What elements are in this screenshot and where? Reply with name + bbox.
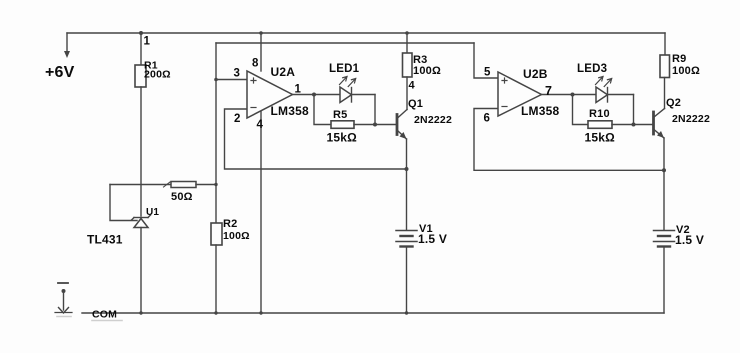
wire reference net vertical xyxy=(215,43,217,223)
svg-text:U2B: U2B xyxy=(523,67,548,81)
svg-text:LM358: LM358 xyxy=(521,104,559,118)
node emitter feedback junction xyxy=(405,167,409,171)
svg-text:4: 4 xyxy=(409,80,416,92)
node base Q1 xyxy=(373,123,377,127)
ground symbol xyxy=(55,283,72,313)
resistor 50Ω xyxy=(110,182,218,204)
node output U2B xyxy=(571,93,575,97)
op-amp U2A xyxy=(247,65,309,118)
node pin3 junction xyxy=(214,78,218,82)
resistor R3 xyxy=(403,31,441,77)
svg-text:Q2: Q2 xyxy=(666,97,681,109)
LED LED3 xyxy=(573,63,634,103)
resistor R9 xyxy=(660,33,700,78)
svg-text:2: 2 xyxy=(234,113,241,125)
battery V1 xyxy=(396,223,447,313)
svg-text:U1: U1 xyxy=(146,207,159,218)
svg-text:15kΩ: 15kΩ xyxy=(585,131,616,145)
svg-text:1.5 V: 1.5 V xyxy=(418,232,447,246)
svg-text:1.5 V: 1.5 V xyxy=(675,233,704,247)
svg-text:8: 8 xyxy=(252,58,259,70)
transistor Q1 xyxy=(397,77,452,139)
svg-text:LED3: LED3 xyxy=(577,63,607,75)
svg-text:15kΩ: 15kΩ xyxy=(327,131,358,145)
resistor R2 xyxy=(211,218,250,313)
node base Q2 xyxy=(632,123,636,127)
svg-text:200Ω: 200Ω xyxy=(144,69,171,81)
wire pin 6 feedback xyxy=(474,109,664,171)
battery V2 xyxy=(654,224,705,313)
wire pin 4 ground xyxy=(260,111,262,313)
resistor R10 xyxy=(573,95,634,145)
node 1 xyxy=(139,31,151,48)
wire bottom rail xyxy=(82,312,664,314)
svg-text:R10: R10 xyxy=(589,108,610,120)
wire pin 2 feedback xyxy=(225,109,407,169)
wire top supply rail xyxy=(67,32,665,34)
svg-text:COM: COM xyxy=(92,309,117,321)
svg-text:7: 7 xyxy=(545,84,552,98)
wire LED3 to R10 right leg xyxy=(633,95,635,125)
wire base Q1 xyxy=(375,124,397,126)
node output U2A xyxy=(312,93,316,97)
svg-text:R5: R5 xyxy=(333,109,347,121)
svg-text:R9: R9 xyxy=(672,53,686,65)
svg-text:5: 5 xyxy=(484,67,491,79)
svg-text:50Ω: 50Ω xyxy=(171,191,193,203)
node rail junctions xyxy=(139,311,142,314)
node emitter feedback junction Q2 xyxy=(662,168,666,172)
wire TL431 ref loop xyxy=(110,185,137,221)
wire output pin 7 xyxy=(542,94,573,96)
svg-text:100Ω: 100Ω xyxy=(672,65,700,77)
wire pin 5 xyxy=(474,43,498,78)
wire LED1 to R5 right leg xyxy=(374,95,376,125)
wire emitter Q2 to V2 xyxy=(663,138,665,230)
svg-text:6: 6 xyxy=(484,113,491,125)
wire base Q2 xyxy=(634,124,654,126)
wire reference net top xyxy=(216,42,474,44)
svg-text:U2A: U2A xyxy=(271,65,296,79)
LED LED1 xyxy=(314,63,375,103)
wire pin 3 xyxy=(216,79,247,81)
svg-text:3: 3 xyxy=(234,68,241,80)
svg-text:2N2222: 2N2222 xyxy=(414,114,452,126)
svg-text:LM358: LM358 xyxy=(271,104,309,118)
resistor R5 xyxy=(314,95,375,145)
svg-text:1: 1 xyxy=(144,36,151,48)
svg-text:TL431: TL431 xyxy=(87,233,123,247)
op-amp U2B xyxy=(498,67,559,118)
svg-text:+6V: +6V xyxy=(45,64,75,81)
wire output pin 1 xyxy=(293,94,315,96)
resistor R1 xyxy=(135,33,171,216)
svg-text:4: 4 xyxy=(257,119,264,131)
svg-text:Q1: Q1 xyxy=(408,98,423,110)
svg-text:LED1: LED1 xyxy=(329,63,360,75)
svg-text:1: 1 xyxy=(295,84,302,96)
shunt regulator U1 TL431 xyxy=(87,207,159,313)
svg-text:2N2222: 2N2222 xyxy=(672,113,710,125)
wire emitter Q1 to V1 xyxy=(406,139,408,230)
wire pin 8 supply xyxy=(260,33,262,71)
power +6V arrow xyxy=(45,33,75,81)
transistor Q2 xyxy=(654,78,710,139)
svg-text:100Ω: 100Ω xyxy=(223,230,250,242)
svg-text:100Ω: 100Ω xyxy=(413,65,441,77)
svg-text:R2: R2 xyxy=(223,218,237,230)
